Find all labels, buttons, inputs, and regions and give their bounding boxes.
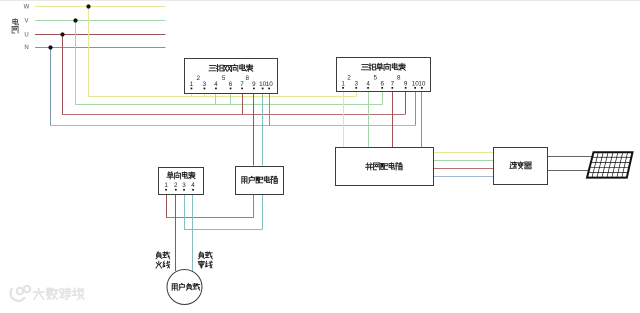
svg-text:N: N (24, 45, 28, 51)
svg-text:1: 1 (164, 182, 168, 189)
svg-text:8: 8 (246, 75, 250, 82)
svg-text:6: 6 (229, 81, 233, 88)
svg-text:W: W (24, 5, 30, 11)
svg-text:4: 4 (191, 182, 195, 189)
svg-text:4: 4 (366, 81, 370, 88)
svg-text:U: U (24, 33, 28, 39)
svg-text:2: 2 (197, 75, 201, 82)
svg-text:1: 1 (341, 81, 345, 88)
svg-text:7: 7 (240, 81, 244, 88)
svg-text:1: 1 (190, 81, 194, 88)
svg-text:9: 9 (404, 81, 408, 88)
svg-text:10: 10 (266, 81, 274, 88)
svg-text:2: 2 (347, 74, 351, 81)
svg-text:6: 6 (381, 81, 385, 88)
svg-text:8: 8 (397, 74, 401, 81)
svg-text:5: 5 (222, 75, 226, 82)
svg-text:3: 3 (203, 81, 207, 88)
svg-text:10: 10 (418, 81, 426, 88)
svg-text:V: V (24, 19, 28, 25)
svg-text:3: 3 (182, 182, 186, 189)
svg-text:4: 4 (214, 81, 218, 88)
svg-text:5: 5 (373, 74, 377, 81)
svg-text:3: 3 (355, 81, 359, 88)
svg-text:2: 2 (174, 182, 178, 189)
svg-text:9: 9 (252, 81, 256, 88)
svg-text:7: 7 (391, 81, 395, 88)
